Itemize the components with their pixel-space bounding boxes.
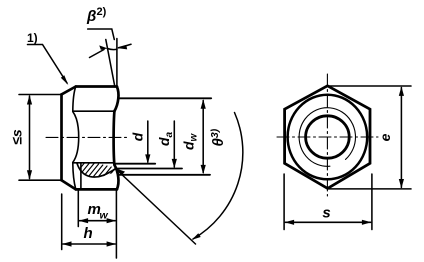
beta measuring arc bbox=[108, 49, 117, 50]
d_w dim arrowhead up bbox=[201, 99, 206, 108]
extension bottom bbox=[19, 179, 60, 181]
callout 1) arrowhead bbox=[61, 75, 69, 85]
extension top bbox=[19, 94, 60, 96]
dim line bbox=[29, 96, 31, 179]
h arrowhead left bbox=[62, 241, 72, 246]
s dim arrowhead up bbox=[27, 95, 32, 105]
<= s dimension bbox=[19, 95, 60, 181]
svg-text:β: β bbox=[86, 8, 96, 25]
e dimension bbox=[328, 86, 411, 189]
flat edge line top bbox=[73, 110, 115, 112]
svg-text:1): 1) bbox=[27, 31, 38, 45]
s dimension bbox=[284, 174, 372, 230]
beta right arrow tail bbox=[119, 44, 132, 48]
inner hex lines bbox=[73, 87, 115, 190]
svg-text:e: e bbox=[377, 133, 393, 141]
d_w dimension bbox=[119, 98, 212, 175]
nylon insert cup curve bbox=[77, 163, 116, 177]
beta left arrowhead bbox=[99, 45, 107, 50]
h arrowhead right bbox=[107, 241, 117, 246]
svg-text:d: d bbox=[130, 132, 146, 141]
flat edge line bottom bbox=[73, 162, 115, 164]
top corner line bbox=[76, 85, 117, 88]
s across-flats arrowhead left bbox=[285, 220, 295, 225]
nut body outline bbox=[62, 87, 119, 190]
bottom corner line bbox=[76, 188, 117, 191]
m_w arrowhead left bbox=[79, 218, 89, 223]
theta leader and arc bbox=[117, 113, 243, 245]
centerline of left view bbox=[46, 136, 129, 138]
thread hole circle bbox=[306, 116, 350, 158]
e dim arrowhead up bbox=[399, 87, 404, 96]
d dim arrowhead bbox=[145, 154, 150, 164]
theta leader arrowhead at insert bbox=[115, 168, 125, 175]
chamfer circle bbox=[288, 95, 368, 180]
cap top arc (washer face bulge) bbox=[114, 87, 118, 112]
m_w dimension bbox=[78, 191, 116, 259]
s dim arrowhead down bbox=[27, 170, 32, 180]
beta vertical reference line bbox=[116, 39, 118, 87]
svg-text:2): 2) bbox=[97, 6, 107, 18]
s across-flats arrowhead right bbox=[362, 220, 372, 225]
beta slanted line bbox=[106, 40, 115, 88]
centerlines bbox=[326, 74, 328, 196]
left bearing face bbox=[60, 94, 63, 180]
svg-text:s: s bbox=[322, 205, 330, 222]
thread major circle (thin, 3/4) bbox=[299, 108, 355, 167]
m_w arrowhead right bbox=[107, 218, 117, 223]
cap right edge bbox=[112, 111, 115, 165]
beta right arrowhead bbox=[117, 45, 127, 50]
theta arc arrowhead bbox=[192, 233, 201, 240]
h dimension bbox=[62, 194, 115, 250]
top-left chamfer bbox=[62, 87, 76, 95]
d_w dim arrowhead down bbox=[201, 165, 206, 174]
beta left arrow tail bbox=[90, 50, 105, 58]
bottom-left chamfer bbox=[62, 180, 76, 189]
d dimension bbox=[116, 121, 155, 164]
d_a dim arrowhead bbox=[172, 159, 177, 168]
e dim arrowhead down bbox=[399, 179, 404, 188]
beta leader underline bbox=[88, 29, 115, 40]
beta dimension bbox=[88, 29, 131, 87]
svg-text:h: h bbox=[84, 225, 93, 242]
cap bottom arc bbox=[114, 165, 118, 190]
svg-text:≤s: ≤s bbox=[9, 129, 25, 145]
svg-text:w: w bbox=[100, 210, 109, 222]
insert pocket wall bbox=[80, 164, 82, 190]
bottom flat chamfer arc bbox=[73, 163, 76, 189]
callout 1) leader bbox=[28, 45, 68, 84]
middle flat chamfer arc bbox=[73, 112, 79, 163]
top flat chamfer arc bbox=[73, 87, 76, 111]
d_a dimension bbox=[116, 121, 182, 169]
hexagon bbox=[285, 86, 370, 189]
